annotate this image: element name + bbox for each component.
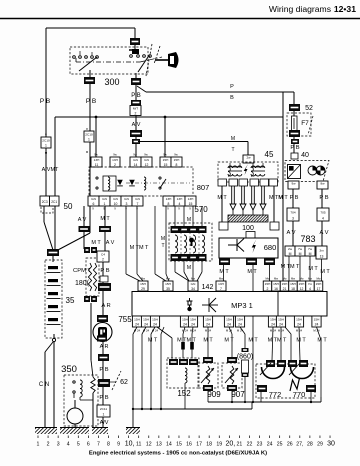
svg-text:A R: A R [101, 303, 110, 309]
svg-text:M 24: M 24 [313, 329, 320, 333]
svg-text:15H: 15H [314, 318, 320, 322]
svg-text:24: 24 [315, 323, 319, 327]
svg-text:1: 1 [88, 138, 90, 142]
svg-text:M 24: M 24 [190, 329, 197, 333]
svg-text:15H: 15H [134, 318, 140, 322]
svg-text:13H: 13H [188, 197, 194, 201]
svg-text:9: 9 [117, 441, 120, 447]
svg-text:A V: A V [106, 240, 115, 246]
svg-text:15H: 15H [140, 282, 146, 286]
svg-text:12: 12 [146, 441, 152, 447]
svg-text:13H: 13H [177, 197, 183, 201]
svg-text:P B: P B [86, 98, 96, 105]
svg-text:4: 4 [67, 441, 70, 447]
svg-text:M T: M T [296, 338, 306, 344]
svg-text:15H: 15H [290, 282, 296, 286]
svg-text:17: 17 [317, 287, 321, 291]
svg-text:14: 14 [134, 163, 138, 167]
svg-text:(860): (860) [237, 354, 253, 361]
svg-text:M: M [299, 252, 302, 256]
svg-text:Mw: Mw [219, 277, 223, 281]
svg-text:7: 7 [97, 441, 100, 447]
svg-text:Mw: Mw [265, 277, 269, 281]
svg-text:T: T [161, 243, 164, 249]
svg-text:755: 755 [118, 315, 132, 324]
svg-text:704: 704 [290, 210, 295, 214]
svg-text:23: 23 [257, 441, 263, 447]
svg-text:10: 10 [114, 202, 118, 206]
svg-text:2C10: 2C10 [85, 133, 93, 137]
svg-text:24: 24 [191, 323, 195, 327]
svg-text:1: 1 [45, 144, 47, 148]
svg-text:100: 100 [242, 225, 254, 232]
svg-text:15H: 15H [165, 282, 171, 286]
svg-text:M T: M T [148, 338, 158, 344]
svg-text:680: 680 [264, 243, 277, 252]
svg-text:GN: GN [135, 197, 140, 201]
svg-text:15H: 15H [299, 282, 305, 286]
svg-text:M TM T: M TM T [268, 338, 287, 344]
svg-text:3: 3 [57, 441, 60, 447]
svg-text:13H: 13H [218, 282, 224, 286]
svg-text:18: 18 [206, 441, 212, 447]
svg-text:8: 8 [176, 163, 178, 167]
svg-text:2C10: 2C10 [42, 139, 50, 143]
svg-text:300: 300 [104, 77, 119, 87]
svg-text:15: 15 [189, 202, 193, 206]
svg-text:M: M [231, 136, 235, 142]
svg-text:24: 24 [183, 323, 187, 327]
svg-text:152: 152 [177, 389, 191, 398]
svg-text:3: 3 [126, 202, 128, 206]
svg-text:27,: 27, [296, 441, 303, 447]
svg-text:Mw: Mw [274, 277, 278, 281]
svg-text:M T: M T [278, 195, 288, 201]
svg-text:15H: 15H [143, 318, 149, 322]
svg-text:19: 19 [216, 441, 222, 447]
svg-text:15H: 15H [163, 158, 169, 162]
svg-text:GN: GN [102, 197, 107, 201]
svg-text:15H: 15H [182, 318, 188, 322]
svg-text:P B: P B [319, 195, 328, 201]
svg-text:12: 12 [300, 287, 304, 291]
svg-text:772: 772 [269, 390, 282, 399]
svg-text:GN: GN [144, 158, 149, 162]
svg-text:15H: 15H [205, 318, 211, 322]
svg-text:M 24: M 24 [182, 329, 189, 333]
svg-text:24: 24 [279, 323, 283, 327]
svg-text:Wiring diagrams: Wiring diagrams [269, 4, 331, 14]
svg-text:Mw: Mw [282, 277, 286, 281]
svg-text:6: 6 [87, 441, 90, 447]
svg-text:Mw: Mw [299, 277, 303, 281]
svg-text:11: 11 [136, 441, 141, 447]
svg-text:24: 24 [297, 323, 301, 327]
svg-text:6: 6 [93, 202, 95, 206]
svg-text:Mw: Mw [316, 277, 320, 281]
svg-text:M T: M T [224, 338, 234, 344]
svg-text:P B: P B [131, 93, 141, 99]
svg-text:M T: M T [308, 266, 318, 272]
svg-text:2: 2 [102, 258, 104, 262]
svg-text:M 24: M 24 [226, 329, 233, 333]
svg-text:7m: 7m [308, 282, 313, 286]
svg-text:C N: C N [39, 382, 49, 388]
svg-text:M T: M T [317, 338, 327, 344]
svg-text:P B: P B [99, 395, 108, 401]
svg-text:P B: P B [100, 268, 109, 274]
svg-text:P B: P B [99, 367, 108, 373]
svg-text:2C3: 2C3 [42, 200, 48, 204]
svg-text:M T: M T [91, 240, 101, 246]
svg-text:15H: 15H [273, 282, 279, 286]
svg-text:28: 28 [307, 441, 313, 447]
svg-text:907: 907 [231, 390, 245, 399]
svg-text:22: 22 [247, 441, 253, 447]
svg-text:17: 17 [196, 441, 202, 447]
svg-text:909: 909 [207, 390, 221, 399]
svg-text:2: 2 [267, 287, 269, 291]
svg-text:13H: 13H [112, 158, 118, 162]
svg-text:14: 14 [166, 441, 172, 447]
svg-text:24: 24 [135, 323, 139, 327]
svg-text:7: 7 [220, 287, 222, 291]
svg-text:A/V: A/V [132, 122, 141, 128]
svg-text:15H: 15H [282, 282, 288, 286]
svg-text:T: T [231, 147, 234, 153]
svg-text:F7: F7 [301, 120, 309, 127]
svg-text:M T: M T [219, 269, 229, 275]
svg-text:15H: 15H [190, 318, 196, 322]
svg-text:9w: 9w [94, 153, 97, 157]
svg-text:C4: C4 [101, 253, 105, 257]
svg-text:180(: 180( [75, 280, 90, 287]
svg-text:15H: 15H [174, 158, 180, 162]
svg-text:Mw: Mw [166, 277, 170, 281]
svg-text:2C11: 2C11 [100, 407, 107, 411]
svg-text:705: 705 [320, 210, 325, 214]
svg-text:25: 25 [277, 441, 283, 447]
svg-text:15H: 15H [316, 282, 322, 286]
svg-text:M: M [187, 265, 191, 271]
svg-text:A/V: A/V [100, 420, 109, 426]
svg-text:A R: A R [100, 344, 109, 350]
svg-text:M T: M T [320, 269, 330, 275]
svg-text:35: 35 [66, 296, 75, 305]
svg-text:15: 15 [164, 163, 168, 167]
svg-text:M T: M T [217, 195, 227, 201]
svg-text:15H: 15H [237, 318, 243, 322]
svg-text:13H: 13H [166, 197, 172, 201]
svg-text:B: B [230, 95, 234, 101]
svg-text:GN: GN [91, 197, 96, 201]
svg-text:9w: 9w [133, 153, 136, 157]
svg-text:770: 770 [293, 390, 306, 399]
svg-text:18: 18 [291, 287, 295, 291]
svg-text:12: 12 [145, 163, 149, 167]
svg-text:24: 24 [271, 323, 275, 327]
svg-text:9w: 9w [144, 153, 147, 157]
svg-text:3m: 3m [319, 248, 324, 252]
svg-text:13H: 13H [94, 158, 100, 162]
svg-text:4: 4 [179, 202, 181, 206]
svg-text:62: 62 [120, 379, 128, 386]
svg-text:30: 30 [327, 440, 335, 447]
svg-text:M: M [289, 252, 292, 256]
svg-text:7: 7 [137, 202, 139, 206]
svg-text:24: 24 [267, 441, 273, 447]
svg-text:570: 570 [194, 205, 208, 214]
svg-text:GN: GN [113, 197, 118, 201]
svg-text:13: 13 [320, 254, 324, 258]
svg-text:M T: M T [247, 269, 257, 275]
svg-text:16: 16 [274, 287, 278, 291]
svg-text:29: 29 [141, 287, 145, 291]
svg-text:2C1: 2C1 [51, 200, 57, 204]
svg-text:807: 807 [197, 183, 210, 192]
svg-text:1: 1 [104, 202, 106, 206]
svg-text:1: 1 [37, 441, 40, 447]
svg-text:20,: 20, [225, 440, 235, 447]
svg-text:CPM T: CPM T [73, 268, 91, 274]
svg-text:350: 350 [61, 364, 77, 375]
svg-text:2: 2 [114, 163, 116, 167]
svg-text:15H: 15H [152, 318, 158, 322]
svg-text:4: 4 [322, 216, 324, 220]
svg-text:M: M [161, 236, 165, 242]
svg-text:15H: 15H [226, 318, 232, 322]
svg-text:12•31: 12•31 [334, 4, 356, 14]
svg-text:Mw: Mw [308, 277, 312, 281]
svg-text:MP3 1: MP3 1 [231, 301, 253, 310]
svg-text:15H: 15H [278, 318, 284, 322]
svg-text:P B: P B [290, 195, 299, 201]
svg-text:Engine electrical systems - 19: Engine electrical systems - 1905 cc non-… [89, 451, 267, 457]
svg-text:40: 40 [301, 152, 309, 159]
svg-text:M: M [309, 252, 312, 256]
svg-text:Mw: Mw [291, 277, 295, 281]
svg-text:29: 29 [317, 441, 323, 447]
svg-text:P B: P B [40, 98, 50, 105]
svg-text:34: 34 [191, 287, 195, 291]
svg-text:Mw: Mw [191, 277, 195, 281]
svg-text:GN: GN [191, 282, 196, 286]
svg-text:16: 16 [186, 441, 192, 447]
svg-text:A V: A V [286, 230, 295, 236]
svg-text:2: 2 [135, 111, 137, 115]
svg-text:2: 2 [47, 441, 50, 447]
svg-text:M TM T: M TM T [130, 245, 149, 251]
svg-text:15: 15 [176, 441, 182, 447]
svg-text:M/T: M/T [133, 107, 138, 111]
svg-text:50: 50 [64, 202, 73, 211]
svg-text:A V: A V [319, 230, 328, 236]
svg-text:3: 3 [292, 216, 294, 220]
svg-text:24: 24 [206, 323, 210, 327]
svg-text:15H: 15H [296, 318, 302, 322]
svg-text:M T: M T [100, 216, 110, 222]
svg-text:24: 24 [238, 323, 242, 327]
svg-text:9w: 9w [174, 153, 177, 157]
svg-text:783: 783 [300, 234, 315, 244]
svg-text:24: 24 [227, 323, 231, 327]
svg-text:8: 8 [107, 441, 110, 447]
svg-text:P: P [230, 84, 234, 90]
svg-text:P B: P B [290, 145, 299, 151]
svg-text:142: 142 [202, 284, 214, 291]
svg-text:45: 45 [265, 150, 274, 159]
svg-text:5: 5 [77, 441, 80, 447]
svg-text:24: 24 [144, 323, 148, 327]
svg-text:21: 21 [283, 287, 287, 291]
svg-text:Mw: Mw [141, 277, 145, 281]
svg-text:15H: 15H [270, 318, 276, 322]
svg-text:9w: 9w [113, 153, 116, 157]
svg-text:GN: GN [133, 158, 138, 162]
svg-text:21: 21 [237, 441, 243, 447]
svg-text:11: 11 [95, 163, 99, 167]
svg-text:A/VMT: A/VMT [42, 167, 59, 173]
svg-text:26: 26 [287, 441, 293, 447]
svg-text:8: 8 [168, 202, 170, 206]
svg-text:13: 13 [156, 441, 162, 447]
svg-text:GN: GN [124, 197, 129, 201]
svg-text:A V: A V [78, 217, 87, 223]
svg-text:M TM T: M TM T [281, 264, 300, 270]
svg-text:52: 52 [305, 105, 313, 112]
svg-text:1: 1 [103, 413, 105, 417]
svg-text:35: 35 [166, 287, 170, 291]
svg-text:10,: 10, [125, 440, 135, 447]
svg-text:9w: 9w [163, 153, 166, 157]
svg-text:24: 24 [153, 323, 157, 327]
svg-text:4: 4 [309, 287, 311, 291]
svg-text:M: M [187, 217, 191, 223]
svg-text:15H: 15H [265, 282, 271, 286]
